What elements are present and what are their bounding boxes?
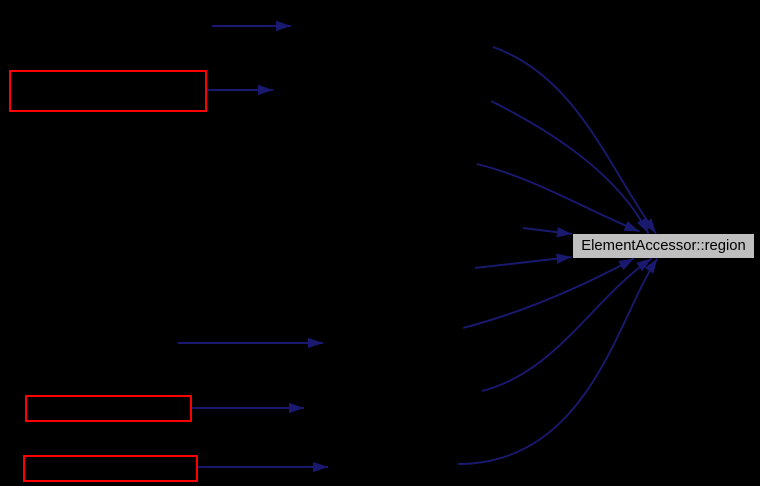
node: red box 2 (truncated caller, label hidden) [26,396,191,421]
edge curve A (top) [493,47,656,234]
edge arrow 5 (from red box 3) [198,466,328,468]
edge arrow 3 (mid-left) [178,342,323,344]
edge straight into node lower-left [475,257,572,268]
edge curve G [482,259,652,392]
svg-text:ElementAccessor::region: ElementAccessor::region [581,238,746,254]
edge curve C [477,164,640,232]
node: red box 3 (truncated caller, label hidden) [24,456,197,481]
edge straight into node upper-left [523,228,572,234]
edge curve B [491,101,649,234]
node ElementAccessor::region (current, gray) [573,234,754,258]
edge arrow 2 (from red box 1) [207,89,273,91]
edge curve H [458,259,658,465]
node: red box 1 (truncated caller, label hidden) [10,71,206,111]
edge arrow 1 (top-left) [212,25,291,27]
edge curve F (bottom shallow) [463,259,634,329]
edge arrow 4 (from red box 2) [192,407,304,409]
